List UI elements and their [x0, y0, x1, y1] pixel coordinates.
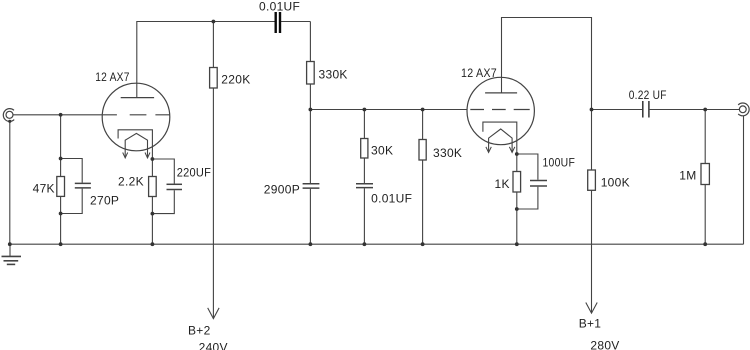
- svg-text:0.22 UF: 0.22 UF: [629, 88, 667, 102]
- svg-text:1K: 1K: [495, 177, 510, 191]
- svg-text:0.01UF: 0.01UF: [371, 191, 412, 205]
- svg-text:100K: 100K: [601, 175, 630, 189]
- svg-text:280V: 280V: [590, 338, 619, 350]
- svg-text:240V: 240V: [199, 340, 228, 350]
- svg-text:330K: 330K: [433, 146, 462, 160]
- svg-text:47K: 47K: [33, 182, 55, 196]
- svg-text:0.01UF: 0.01UF: [259, 0, 300, 13]
- svg-text:2.2K: 2.2K: [118, 175, 144, 189]
- svg-text:270P: 270P: [90, 194, 119, 208]
- svg-text:2900P: 2900P: [264, 182, 300, 196]
- svg-text:30K: 30K: [371, 143, 393, 157]
- svg-text:220K: 220K: [221, 72, 250, 86]
- svg-text:330K: 330K: [319, 67, 348, 81]
- svg-text:100UF: 100UF: [543, 155, 576, 169]
- svg-text:1M: 1M: [679, 169, 696, 183]
- svg-text:B+1: B+1: [579, 316, 602, 330]
- svg-text:12 AX7: 12 AX7: [95, 70, 130, 84]
- svg-text:220UF: 220UF: [177, 166, 212, 180]
- svg-text:12 AX7: 12 AX7: [461, 66, 497, 80]
- svg-text:B+2: B+2: [188, 323, 211, 337]
